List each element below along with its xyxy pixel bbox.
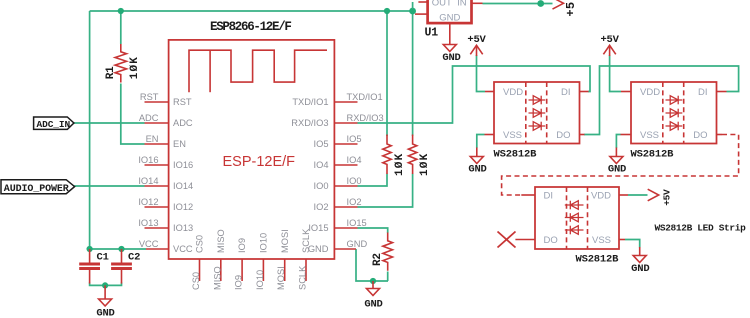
LED1 internal diodes xyxy=(529,96,546,131)
svg-text:IO0: IO0 xyxy=(347,176,362,186)
svg-text:TXD/IO1: TXD/IO1 xyxy=(347,92,383,102)
power flag +5V for LED2 xyxy=(600,34,619,56)
svg-text:AUDIO_POWER: AUDIO_POWER xyxy=(4,184,69,195)
pin CS0 stub xyxy=(191,235,205,290)
IC LED1 WS2812B xyxy=(485,82,589,160)
svg-text:WS2812B: WS2812B xyxy=(494,148,538,160)
svg-text:DO: DO xyxy=(693,130,707,141)
power flag +5V for LED1 xyxy=(467,34,486,56)
net flag ADC_IN xyxy=(34,117,74,130)
node junction U1 OUT / rail xyxy=(409,8,416,15)
node junction C1 C2 GND xyxy=(102,282,108,288)
resistor R2 xyxy=(372,233,393,271)
svg-text:DI: DI xyxy=(544,191,554,202)
ground symbol C1 C2 xyxy=(96,285,114,318)
svg-text:IO2: IO2 xyxy=(347,197,362,207)
svg-text:RXD/IO3: RXD/IO3 xyxy=(347,113,384,123)
svg-text:DO: DO xyxy=(556,130,570,141)
pin TXD/IO1 stub xyxy=(292,92,382,107)
LED2 internal diodes xyxy=(666,96,683,131)
wire IO15 to R2 top xyxy=(358,228,388,233)
svg-text:GND: GND xyxy=(442,52,460,64)
svg-text:GND: GND xyxy=(631,263,649,275)
capacitor C1 xyxy=(79,249,109,284)
wire RXD/IO3 to first WS2812B DI xyxy=(358,66,591,123)
svg-text:DI: DI xyxy=(561,87,571,98)
svg-text:1ØK: 1ØK xyxy=(419,153,431,176)
wire ADC_IN to ADC xyxy=(74,122,145,124)
net flag AUDIO_POWER xyxy=(1,180,75,195)
capacitor C2 xyxy=(111,249,140,284)
svg-text:ADC_IN: ADC_IN xyxy=(37,119,71,130)
svg-text:SCLK: SCLK xyxy=(301,228,311,253)
svg-text:+5: +5 xyxy=(564,2,578,17)
svg-text:IO9: IO9 xyxy=(234,275,244,290)
wire AUDIO_POWER to IO14 xyxy=(74,185,144,187)
svg-text:ESP8266-12E/F: ESP8266-12E/F xyxy=(210,20,291,34)
svg-text:MOSI: MOSI xyxy=(280,229,290,253)
wire VCC top rail xyxy=(90,10,413,12)
wire 10K R4 bottom to IO2 xyxy=(358,174,413,207)
svg-text:IO5: IO5 xyxy=(314,139,329,149)
node junction C1 / VCC xyxy=(87,246,93,252)
svg-text:GND: GND xyxy=(347,239,368,249)
svg-text:VDD: VDD xyxy=(640,87,660,98)
pin IO0 stub xyxy=(314,176,362,191)
wire R1 bottom to EN xyxy=(121,84,145,145)
svg-text:RST: RST xyxy=(173,97,192,107)
svg-text:MOSI: MOSI xyxy=(276,266,286,290)
wire 10K R3 bottom to IO0 xyxy=(358,174,388,186)
svg-text:IO13: IO13 xyxy=(173,223,193,233)
pin IO10 stub xyxy=(255,233,269,290)
wire R2 bottom xyxy=(387,272,389,282)
svg-text:DO: DO xyxy=(544,235,558,246)
svg-text:EN: EN xyxy=(173,139,186,149)
svg-text:IO12: IO12 xyxy=(138,197,158,207)
pin VCC stub xyxy=(139,239,193,254)
svg-text:VSS: VSS xyxy=(503,130,522,141)
svg-text:+5V: +5V xyxy=(467,34,486,46)
svg-text:IO13: IO13 xyxy=(138,218,158,228)
svg-text:IO9: IO9 xyxy=(237,238,247,253)
wire +5V to LED2 VDD xyxy=(610,55,621,92)
pin MOSI stub xyxy=(276,229,290,290)
pin IO2 stub xyxy=(314,197,362,212)
resistor R4 10K pullup IO2 xyxy=(408,135,431,177)
svg-text:IO5: IO5 xyxy=(347,134,362,144)
svg-text:MISO: MISO xyxy=(212,266,222,290)
svg-text:RST: RST xyxy=(140,92,159,102)
resistor R1 xyxy=(105,44,141,83)
svg-text:DI: DI xyxy=(698,87,708,98)
wire VCC pin to left rail xyxy=(90,248,146,250)
svg-text:VDD: VDD xyxy=(591,191,611,202)
node junction C2 / VCC xyxy=(118,246,124,252)
pin RXD/IO3 stub xyxy=(291,113,383,128)
svg-text:1ØK: 1ØK xyxy=(129,56,141,79)
IC LED2 WS2812B xyxy=(621,82,727,160)
svg-text:CS0: CS0 xyxy=(191,272,201,290)
svg-text:IO10: IO10 xyxy=(255,270,265,290)
wire dashed LED2 DO to LED3 DI xyxy=(502,135,739,196)
svg-text:ADC: ADC xyxy=(173,118,193,128)
power flag +5V top right xyxy=(553,0,579,17)
wire R1 top xyxy=(120,11,122,44)
svg-text:+5V: +5V xyxy=(662,189,673,206)
svg-text:VSS: VSS xyxy=(592,235,611,246)
wire +5V to LED1 VDD xyxy=(477,55,486,92)
svg-text:IO4: IO4 xyxy=(314,160,329,170)
no-connect X on LED3 DO xyxy=(498,232,516,248)
svg-text:VCC: VCC xyxy=(139,239,159,249)
svg-text:IO12: IO12 xyxy=(173,202,193,212)
pin EN stub xyxy=(145,134,186,149)
pin IO13 stub xyxy=(138,218,193,233)
pin RST stub xyxy=(140,92,192,107)
node junction R2 / GND xyxy=(370,278,376,284)
svg-text:IN: IN xyxy=(457,0,467,8)
svg-text:SCLK: SCLK xyxy=(298,265,308,290)
node junction +5V net xyxy=(537,0,544,7)
svg-text:WS2812B: WS2812B xyxy=(576,253,620,265)
svg-text:ADC: ADC xyxy=(139,113,159,123)
svg-text:WS2812B: WS2812B xyxy=(631,148,675,160)
svg-text:1ØK: 1ØK xyxy=(394,153,406,176)
wire LED2 VSS to GND xyxy=(616,135,620,149)
ground symbol LED2 xyxy=(608,148,626,176)
wire 10K R3 top vertical xyxy=(386,11,388,136)
svg-text:GND: GND xyxy=(608,164,626,176)
svg-text:GND: GND xyxy=(96,308,114,318)
wire LED3 VDD to +5V flag xyxy=(628,194,648,196)
pin IO9 stub xyxy=(234,238,248,290)
svg-text:R1: R1 xyxy=(105,66,117,79)
svg-text:MISO: MISO xyxy=(216,229,226,253)
pin IO16 stub xyxy=(138,155,193,170)
svg-text:VDD: VDD xyxy=(503,87,523,98)
node junction R1 / rail xyxy=(118,8,124,14)
LED3 internal diodes xyxy=(565,201,584,235)
pin IO14 stub xyxy=(138,176,193,191)
svg-text:IO10: IO10 xyxy=(259,233,269,253)
pin IO12 stub xyxy=(138,197,193,212)
wire left vertical VCC to C1 xyxy=(89,11,91,249)
pin ADC stub xyxy=(139,113,193,128)
svg-text:TXD/IO1: TXD/IO1 xyxy=(292,97,328,107)
svg-text:CS0: CS0 xyxy=(195,235,205,253)
svg-text:U1: U1 xyxy=(425,27,439,40)
svg-text:RXD/IO3: RXD/IO3 xyxy=(291,118,328,128)
wire LED1 VSS to GND xyxy=(477,135,485,149)
IC U2 ESP-12E/F body xyxy=(169,20,335,259)
pin IO4 stub xyxy=(314,155,362,170)
svg-text:IO15: IO15 xyxy=(347,218,367,228)
svg-text:+5V: +5V xyxy=(600,34,619,46)
wire LED3 VSS to GND xyxy=(625,240,640,248)
svg-text:IO0: IO0 xyxy=(314,181,329,191)
svg-text:IO16: IO16 xyxy=(138,155,158,165)
svg-text:IO2: IO2 xyxy=(314,202,329,212)
node junction R3 / rail xyxy=(384,8,390,14)
ground symbol R2 xyxy=(364,281,382,311)
ground symbol LED1 xyxy=(468,148,486,176)
ground symbol U1 xyxy=(442,23,460,64)
svg-text:GND: GND xyxy=(439,13,460,24)
svg-text:WS2812B LED Strip: WS2812B LED Strip xyxy=(655,223,747,234)
svg-text:C1: C1 xyxy=(97,251,109,263)
svg-text:IO16: IO16 xyxy=(173,160,193,170)
wire C1 C2 bottom to GND xyxy=(90,283,122,286)
pin IO5 stub xyxy=(314,134,362,149)
ground symbol LED3 xyxy=(631,247,649,275)
svg-text:IO14: IO14 xyxy=(173,181,193,191)
svg-text:VSS: VSS xyxy=(640,130,659,141)
svg-text:R2: R2 xyxy=(372,253,384,266)
svg-text:IO4: IO4 xyxy=(347,155,362,165)
wire U1 IN to +5V flag xyxy=(483,3,553,5)
svg-text:IO14: IO14 xyxy=(138,176,158,186)
antenna meander inside ESP-12E/F xyxy=(189,50,327,92)
svg-text:C2: C2 xyxy=(128,251,140,263)
pin IO15 stub xyxy=(308,218,366,233)
svg-text:IO15: IO15 xyxy=(308,223,328,233)
pin GND stub ESP xyxy=(308,239,368,254)
resistor R3 10K pullup IO0 xyxy=(383,135,406,177)
IC LED3 WS2812B xyxy=(515,187,628,265)
svg-text:EN: EN xyxy=(146,134,159,144)
wire LED1 DO to LED2 DI xyxy=(584,66,739,135)
wire 10K R4 top vertical xyxy=(412,11,414,136)
pin MISO stub xyxy=(212,229,226,290)
svg-text:GND: GND xyxy=(468,164,486,176)
svg-text:VCC: VCC xyxy=(173,244,193,254)
svg-text:OUT: OUT xyxy=(432,0,452,8)
regulator U1 xyxy=(413,0,483,40)
svg-text:GND: GND xyxy=(364,299,382,311)
svg-text:ESP-12E/F: ESP-12E/F xyxy=(223,154,296,170)
wire ESP GND pin to R2 bottom xyxy=(356,249,388,281)
power flag +5V LED3 xyxy=(648,189,673,206)
pin SCLK stub xyxy=(298,228,312,290)
